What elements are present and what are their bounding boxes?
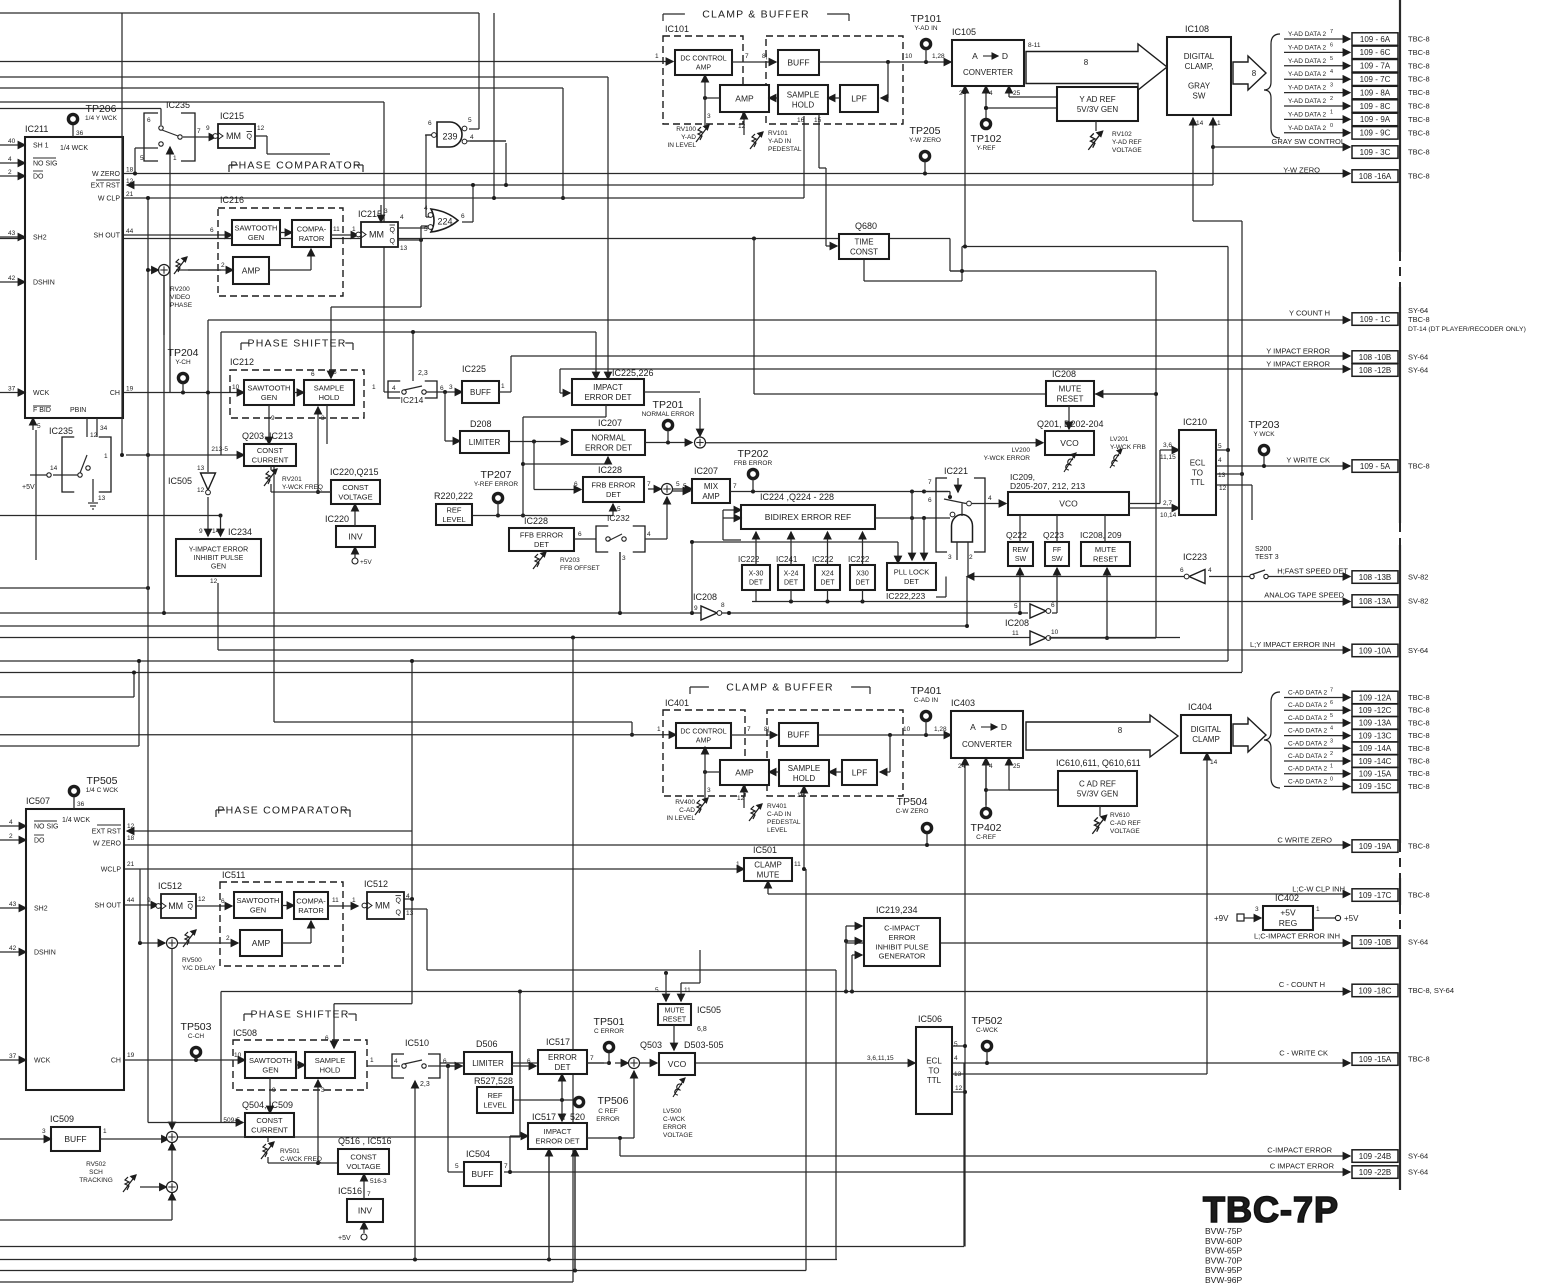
svg-text:4: 4 [1208, 567, 1212, 574]
svg-text:GENERATOR: GENERATOR [879, 952, 926, 961]
svg-text:239: 239 [442, 132, 457, 142]
svg-text:Y-AD DATA 2: Y-AD DATA 2 [1288, 111, 1327, 118]
svg-text:TO: TO [1192, 468, 1203, 477]
IC222 X30 DET [850, 565, 875, 590]
svg-text:PEDESTAL: PEDESTAL [767, 819, 801, 826]
svg-text:TBC-8: TBC-8 [1408, 61, 1430, 70]
svg-text:IC403: IC403 [951, 698, 975, 708]
svg-text:5: 5 [1014, 603, 1018, 610]
PHASE COMPARATOR [229, 164, 238, 166]
svg-text:7: 7 [747, 726, 751, 733]
svg-text:3: 3 [449, 384, 453, 391]
svg-text:SY-64: SY-64 [1408, 353, 1428, 362]
svg-text:REW: REW [1012, 547, 1029, 554]
C-AD DATA connectors [1352, 691, 1398, 704]
svg-text:5: 5 [455, 1163, 459, 1170]
svg-text:Q504, IC509: Q504, IC509 [242, 1100, 293, 1110]
svg-text:11: 11 [332, 897, 339, 904]
svg-text:C-AD DATA 2: C-AD DATA 2 [1288, 778, 1328, 785]
svg-text:ERROR DET: ERROR DET [535, 1136, 580, 1145]
svg-text:IC510: IC510 [405, 1038, 429, 1048]
svg-text:RV200: RV200 [170, 286, 190, 293]
svg-text:IC223: IC223 [1183, 552, 1207, 562]
gate 224 [431, 209, 458, 232]
svg-text:36: 36 [77, 801, 85, 808]
svg-text:108 -13A: 108 -13A [1359, 597, 1392, 606]
svg-text:1: 1 [1330, 764, 1333, 770]
svg-text:4: 4 [647, 531, 651, 538]
svg-text:PHASE COMPARATOR: PHASE COMPARATOR [217, 805, 348, 817]
svg-text:0: 0 [1330, 123, 1333, 129]
svg-text:TBC-8: TBC-8 [1408, 315, 1430, 324]
TP504 [922, 823, 931, 832]
svg-text:42: 42 [8, 275, 16, 282]
svg-text:Q222: Q222 [1006, 530, 1027, 540]
svg-text:FFB OFFSET: FFB OFFSET [560, 565, 600, 572]
svg-text:37: 37 [9, 1053, 17, 1060]
svg-text:Q: Q [390, 238, 396, 245]
svg-text:AMP: AMP [735, 768, 754, 778]
svg-text:VOLTAGE: VOLTAGE [338, 492, 372, 501]
svg-text:109 -13A: 109 -13A [1359, 719, 1392, 728]
BUFF C [779, 723, 818, 746]
svg-text:C-AD IN: C-AD IN [767, 811, 792, 818]
svg-text:MUTE: MUTE [665, 1008, 685, 1015]
svg-text:TP502: TP502 [972, 1015, 1003, 1027]
svg-text:VOLTAGE: VOLTAGE [1112, 147, 1142, 154]
svg-text:2: 2 [1330, 751, 1333, 757]
svg-text:SH 1: SH 1 [33, 143, 49, 150]
svg-text:Y-AD: Y-AD [681, 134, 696, 141]
wire Y WRITE CK net [1216, 465, 1350, 467]
svg-text:MM: MM [226, 131, 241, 141]
svg-text:109 -15C: 109 -15C [1359, 782, 1392, 791]
svg-text:ECL: ECL [1190, 458, 1206, 467]
svg-text:DET: DET [856, 579, 871, 586]
svg-text:7: 7 [647, 481, 651, 488]
svg-text:ERROR: ERROR [596, 1116, 620, 1123]
svg-text:Q201, D202-204: Q201, D202-204 [1037, 419, 1104, 429]
svg-text:MUTE: MUTE [757, 870, 780, 879]
svg-text:Y-AD DATA 2: Y-AD DATA 2 [1288, 125, 1327, 132]
svg-text:Y WRITE CK: Y WRITE CK [1286, 456, 1330, 465]
svg-text:C-WCK FREQ: C-WCK FREQ [280, 1156, 322, 1163]
svg-text:IMPACT: IMPACT [593, 383, 623, 392]
svg-text:14: 14 [212, 528, 220, 535]
svg-text:19: 19 [127, 1052, 135, 1059]
svg-text:IC208, 209: IC208, 209 [1080, 530, 1122, 540]
svg-text:109 -18C: 109 -18C [1359, 986, 1392, 995]
svg-text:10,14: 10,14 [1160, 512, 1177, 519]
svg-text:AMP: AMP [696, 737, 712, 744]
svg-text:IMPACT: IMPACT [544, 1127, 572, 1136]
svg-text:BVW-75P: BVW-75P [1205, 1226, 1242, 1236]
svg-text:108 -12B: 108 -12B [1359, 366, 1391, 375]
svg-text:10: 10 [905, 53, 913, 60]
svg-text:1,28: 1,28 [934, 726, 947, 733]
svg-text:IC216: IC216 [220, 195, 244, 205]
svg-text:Y WCK: Y WCK [1253, 431, 1275, 438]
svg-text:2,7: 2,7 [1163, 500, 1172, 507]
IC509 BUFF [51, 1127, 100, 1151]
svg-text:HOLD: HOLD [319, 393, 340, 402]
svg-text:A: A [972, 51, 978, 61]
svg-text:108 -13B: 108 -13B [1359, 573, 1391, 582]
svg-text:4: 4 [9, 819, 13, 826]
svg-text:3: 3 [1330, 83, 1333, 89]
svg-text:9: 9 [199, 528, 203, 535]
108-10B Y IMPACT ERROR [1352, 351, 1398, 364]
IC510 [392, 1054, 404, 1078]
svg-text:AMP: AMP [702, 492, 719, 501]
svg-text:PHASE: PHASE [170, 302, 193, 309]
svg-text:TBC-8: TBC-8 [1408, 842, 1430, 851]
svg-text:CH: CH [111, 1058, 121, 1065]
svg-text:BUFF: BUFF [64, 1134, 86, 1144]
svg-text:TBC-8: TBC-8 [1408, 731, 1430, 740]
svg-text:108 -16A: 108 -16A [1359, 172, 1392, 181]
svg-text:13: 13 [400, 245, 408, 252]
svg-text:4: 4 [392, 385, 396, 392]
TP207 [493, 493, 502, 502]
svg-text:6: 6 [311, 371, 315, 378]
svg-text:Y IMPACT ERROR: Y IMPACT ERROR [1266, 360, 1330, 369]
svg-text:6: 6 [147, 117, 151, 124]
svg-text:11: 11 [684, 987, 691, 994]
svg-text:1: 1 [104, 453, 108, 460]
svg-text:3,6: 3,6 [1163, 442, 1172, 449]
svg-text:11,15: 11,15 [1160, 454, 1176, 461]
svg-text:11: 11 [1012, 630, 1019, 637]
svg-text:LEVEL: LEVEL [767, 827, 788, 834]
svg-text:IC108: IC108 [1185, 24, 1209, 34]
svg-text:109 -19A: 109 -19A [1359, 842, 1392, 851]
svg-text:2,3: 2,3 [418, 370, 428, 377]
svg-text:TP203: TP203 [1249, 419, 1280, 431]
109-17C L;C-W CLP INH [1352, 889, 1398, 902]
svg-text:4: 4 [989, 763, 993, 770]
svg-text:SY-64: SY-64 [1408, 1168, 1428, 1177]
svg-text:Y IMPACT ERROR: Y IMPACT ERROR [1266, 347, 1330, 356]
svg-text:TP504: TP504 [897, 796, 928, 808]
svg-text:C-AD DATA 2: C-AD DATA 2 [1288, 715, 1328, 722]
Q504,IC509 CONST CURRENT [245, 1113, 294, 1137]
wire Y COUNT H net [208, 319, 1350, 321]
svg-text:IC215: IC215 [220, 111, 244, 121]
svg-text:IC512: IC512 [364, 879, 388, 889]
svg-text:C-AD REF: C-AD REF [1110, 820, 1141, 827]
svg-text:TBC-8: TBC-8 [1408, 693, 1430, 702]
R220,222 REF LEVEL [436, 504, 472, 525]
svg-text:TRACKING: TRACKING [79, 1177, 113, 1184]
svg-text:TBC-8: TBC-8 [1408, 88, 1430, 97]
svg-text:H;FAST SPEED DET: H;FAST SPEED DET [1277, 567, 1348, 576]
svg-text:INHIBIT PULSE: INHIBIT PULSE [875, 942, 928, 951]
svg-text:C-AD DATA 2: C-AD DATA 2 [1288, 766, 1328, 773]
svg-text:IC222: IC222 [812, 555, 834, 564]
svg-text:IC105: IC105 [952, 27, 976, 37]
IC225,226 IMPACT ERROR DET [572, 379, 644, 405]
svg-text:CONST: CONST [257, 446, 284, 455]
svg-text:DSHIN: DSHIN [34, 950, 56, 957]
svg-text:34: 34 [100, 425, 108, 432]
svg-text:C WRITE ZERO: C WRITE ZERO [1277, 836, 1332, 845]
svg-text:AMP: AMP [735, 94, 754, 104]
svg-text:FF: FF [1053, 547, 1062, 554]
svg-text:IC506: IC506 [918, 1014, 942, 1024]
svg-text:42: 42 [9, 945, 17, 952]
svg-text:7: 7 [1330, 688, 1333, 694]
IC512 MM2 [328, 905, 358, 907]
svg-text:SH2: SH2 [33, 235, 47, 242]
svg-text:+5V: +5V [1344, 914, 1359, 923]
svg-text:BUFF: BUFF [787, 58, 809, 68]
svg-text:IC402: IC402 [1275, 893, 1299, 903]
svg-text:1: 1 [501, 383, 505, 390]
svg-text:IC222,223: IC222,223 [886, 591, 925, 601]
svg-text:6: 6 [527, 1058, 531, 1065]
svg-text:Y/C DELAY: Y/C DELAY [182, 965, 216, 972]
svg-text:Y-IMPACT ERROR: Y-IMPACT ERROR [189, 546, 248, 553]
svg-text:Y-W ZERO: Y-W ZERO [1283, 166, 1320, 175]
IC207 NORMAL ERROR DET [572, 430, 645, 455]
TP503 [191, 1047, 200, 1056]
svg-text:IC210: IC210 [1183, 417, 1207, 427]
svg-text:6,8: 6,8 [697, 1026, 707, 1033]
svg-text:109 - 6C: 109 - 6C [1360, 48, 1391, 57]
svg-text:C-AD: C-AD [679, 807, 695, 814]
svg-text:IC222: IC222 [848, 555, 870, 564]
svg-text:7: 7 [590, 1055, 594, 1062]
svg-text:Y-REF: Y-REF [977, 145, 996, 152]
svg-text:GEN: GEN [250, 905, 266, 914]
IC208,209 MUTE RESET [1081, 542, 1130, 566]
svg-text:IC214: IC214 [401, 395, 424, 405]
svg-text:Q: Q [188, 904, 194, 911]
svg-text:1: 1 [352, 897, 356, 904]
109-15A C-WRITE CK [1352, 1053, 1398, 1066]
svg-text:CONST: CONST [342, 483, 369, 492]
CLAMP & BUFFER C title [690, 686, 709, 688]
LPF C [842, 760, 877, 785]
gate 239 [437, 122, 462, 147]
wire Y IMPACT ERROR nets [511, 355, 1350, 357]
TP201 [663, 420, 672, 429]
svg-text:TBC-8: TBC-8 [1408, 891, 1430, 900]
svg-text:25: 25 [1013, 763, 1021, 770]
svg-text:13: 13 [1218, 472, 1226, 479]
svg-text:1/4 WCK: 1/4 WCK [62, 817, 90, 824]
svg-text:4: 4 [1218, 457, 1222, 464]
svg-text:DO: DO [34, 838, 45, 845]
svg-text:FRB ERROR: FRB ERROR [734, 460, 773, 467]
svg-text:C - COUNT H: C - COUNT H [1279, 980, 1325, 989]
svg-text:TBC-8: TBC-8 [1408, 48, 1430, 57]
svg-text:SAMPLE: SAMPLE [787, 90, 819, 99]
svg-text:1/4 C WCK: 1/4 C WCK [86, 787, 119, 794]
svg-text:WCK: WCK [33, 390, 50, 397]
svg-text:GEN: GEN [248, 233, 264, 242]
svg-text:D205-207, 212, 213: D205-207, 212, 213 [1010, 481, 1085, 491]
svg-text:ERROR DET: ERROR DET [584, 393, 631, 402]
svg-text:PEDESTAL: PEDESTAL [768, 146, 802, 153]
svg-text:Y-AD DATA 2: Y-AD DATA 2 [1288, 44, 1327, 51]
svg-text:3: 3 [948, 554, 952, 561]
svg-text:VOLTAGE: VOLTAGE [346, 1162, 380, 1171]
svg-text:Y AD REF: Y AD REF [1079, 95, 1115, 104]
svg-text:LPF: LPF [852, 768, 868, 778]
svg-text:9: 9 [147, 897, 151, 904]
IC501 CLAMP MUTE [744, 858, 792, 881]
svg-text:7: 7 [733, 483, 737, 490]
svg-text:109 -10B: 109 -10B [1359, 938, 1391, 947]
109-22B C IMPACT ERROR [1352, 1166, 1398, 1179]
svg-text:109 -17C: 109 -17C [1359, 891, 1392, 900]
svg-text:IC207: IC207 [694, 466, 718, 476]
svg-text:INHIBIT PULSE: INHIBIT PULSE [194, 555, 244, 562]
svg-text:5: 5 [140, 155, 144, 162]
svg-text:C-WCK: C-WCK [976, 1027, 999, 1034]
IC208 inverter 11-10 [1030, 631, 1046, 645]
svg-text:C-REF: C-REF [976, 834, 996, 841]
svg-text:SH OUT: SH OUT [94, 233, 121, 240]
IC506 ECL TO TTL [916, 1027, 952, 1114]
IC232 [596, 526, 608, 552]
svg-text:SAMPLE: SAMPLE [315, 1056, 345, 1065]
svg-text:W ZERO: W ZERO [92, 171, 121, 178]
svg-text:12: 12 [738, 123, 746, 130]
svg-text:IC512: IC512 [158, 881, 182, 891]
svg-text:VIDEO: VIDEO [170, 294, 190, 301]
svg-text:INV: INV [358, 1206, 373, 1216]
IC512 MM [161, 894, 196, 918]
svg-text:IC101: IC101 [665, 24, 689, 34]
109-3C GRAY SW CONTROL [1352, 146, 1398, 159]
svg-text:12: 12 [210, 578, 218, 585]
svg-text:3: 3 [622, 555, 626, 562]
svg-text:5: 5 [1330, 713, 1333, 719]
Q203,IC213 CONST CURRENT [244, 444, 296, 466]
109-24B C-IMPACT ERROR [1352, 1150, 1398, 1163]
svg-text:4: 4 [470, 134, 474, 141]
svg-text:2: 2 [226, 935, 230, 942]
svg-text:ECL: ECL [926, 1056, 942, 1065]
svg-text:Y-WCK FRB: Y-WCK FRB [1110, 444, 1146, 451]
svg-text:SW: SW [1051, 556, 1063, 563]
IC401 [663, 710, 745, 796]
svg-text:RV100: RV100 [676, 126, 696, 133]
Q516,IC516 CONST VOLTAGE [338, 1149, 389, 1174]
109-18C C-COUNT H [1352, 984, 1398, 997]
svg-text:Y-WCK FREQ: Y-WCK FREQ [282, 484, 323, 491]
TP204 [178, 373, 187, 382]
svg-text:5: 5 [424, 226, 428, 233]
svg-text:SCH: SCH [89, 1169, 103, 1176]
svg-text:Q503: Q503 [640, 1040, 662, 1050]
IC235 bottom switch [62, 437, 74, 492]
svg-text:12: 12 [257, 125, 265, 132]
TP501 [604, 1042, 613, 1051]
svg-text:PLL LOCK: PLL LOCK [894, 568, 930, 577]
svg-text:Y-AD REF: Y-AD REF [1112, 139, 1142, 146]
IC101 [663, 36, 743, 124]
svg-text:109 - 3C: 109 - 3C [1360, 148, 1391, 157]
IC516 INV [347, 1199, 383, 1222]
svg-text:LV201: LV201 [1110, 436, 1129, 443]
svg-text:4: 4 [400, 214, 404, 221]
svg-text:IC235: IC235 [166, 100, 190, 110]
svg-text:C-W ZERO: C-W ZERO [896, 808, 929, 815]
svg-text:12: 12 [1219, 485, 1227, 492]
svg-text:6: 6 [1180, 567, 1184, 574]
svg-text:SV-82: SV-82 [1408, 573, 1428, 582]
svg-text:18: 18 [126, 167, 134, 174]
svg-text:C-WCK: C-WCK [663, 1116, 686, 1123]
svg-text:EXT RST: EXT RST [91, 183, 121, 190]
svg-text:109 -14A: 109 -14A [1359, 744, 1392, 753]
svg-text:TEST 3: TEST 3 [1255, 554, 1279, 561]
svg-text:+9V: +9V [1214, 914, 1229, 923]
svg-text:ERROR: ERROR [548, 1053, 577, 1062]
svg-text:Y-WCK ERROR: Y-WCK ERROR [984, 455, 1031, 462]
svg-text:13: 13 [406, 910, 414, 917]
svg-text:1: 1 [655, 53, 659, 60]
svg-text:BVW-96P: BVW-96P [1205, 1275, 1242, 1285]
svg-text:Y COUNT H: Y COUNT H [1289, 309, 1330, 318]
svg-text:1: 1 [370, 1057, 374, 1064]
svg-text:109 - 9C: 109 - 9C [1360, 129, 1391, 138]
svg-text:BUFF: BUFF [787, 730, 809, 740]
wire middle bus band [692, 541, 898, 543]
svg-text:4: 4 [394, 1058, 398, 1065]
IC404 DIGITAL CLAMP [1181, 715, 1231, 753]
svg-text:SAWTOOTH: SAWTOOTH [248, 384, 291, 393]
svg-text:MM: MM [168, 901, 183, 911]
svg-text:6: 6 [928, 497, 932, 504]
IC507 [26, 809, 124, 1090]
C AD REF GEN [1058, 771, 1137, 806]
svg-text:8: 8 [1252, 69, 1257, 78]
109-5A Y WRITE CK [1352, 460, 1398, 473]
Q222 REW SW [1008, 542, 1033, 566]
svg-text:DIGITAL: DIGITAL [1184, 52, 1215, 61]
svg-text:DET: DET [784, 579, 799, 586]
svg-text:8|: 8| [764, 726, 770, 733]
svg-text:HOLD: HOLD [793, 774, 815, 783]
svg-text:TBC-8, SY-64: TBC-8, SY-64 [1408, 986, 1454, 995]
svg-text:8|: 8| [762, 53, 768, 60]
svg-text:5: 5 [683, 483, 687, 490]
svg-text:4: 4 [954, 1055, 958, 1062]
wire C-section nets [124, 844, 1350, 846]
svg-text:6: 6 [443, 1058, 447, 1065]
IC225 BUFF [462, 381, 499, 403]
svg-text:SAMPLE: SAMPLE [314, 384, 344, 393]
svg-text:109 -12C: 109 -12C [1359, 706, 1392, 715]
svg-text:109 -22B: 109 -22B [1359, 1168, 1391, 1177]
IC215 MM [218, 124, 255, 148]
svg-text:IC212: IC212 [230, 357, 254, 367]
svg-text:3: 3 [1330, 738, 1333, 744]
svg-text:10: 10 [234, 1052, 242, 1059]
108-13A ANALOG TAPE SPEED [1352, 595, 1398, 608]
IC402 +5V REG [1263, 906, 1313, 930]
svg-text:SH2: SH2 [34, 906, 48, 913]
svg-text:8: 8 [1118, 726, 1123, 735]
Y AD REF GEN [1057, 87, 1138, 121]
svg-text:DC CONTROL: DC CONTROL [680, 729, 726, 736]
svg-text:BVW-65P: BVW-65P [1205, 1246, 1242, 1256]
